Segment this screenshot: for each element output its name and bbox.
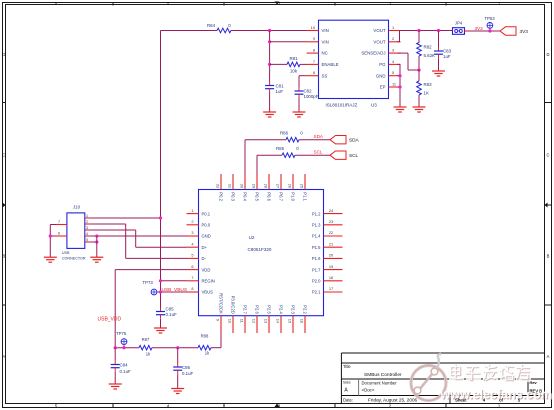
wire SENSE/ADJ to R82 bottom [398,52,409,54]
svg-text:USB_VBUS: USB_VBUS [162,287,188,293]
svg-text:1uF: 1uF [443,54,451,59]
wire R84 left segment [161,30,218,32]
U2 pin 30 P0.4 [244,174,246,190]
svg-text:R82: R82 [424,45,433,50]
node R82 top junction [417,29,420,32]
node C83 top junction [437,29,440,32]
ground J10 pins4-5 [90,256,103,258]
svg-text:Size: Size [343,380,352,385]
U2 pin 29 P0.5 [256,174,258,190]
svg-text:Date:: Date: [343,398,353,403]
capacitor C84 0.1uF [114,348,116,361]
U3 pin 2 VOUT [389,41,401,43]
wire VOUT pin2 join [398,41,400,43]
svg-text:P1.0: P1.0 [291,192,296,201]
capacitor C82 1000pF [298,87,300,91]
wire to U3 pin9 [270,41,307,43]
svg-text:19: 19 [329,264,333,269]
wire C81 to ground [269,93,271,113]
svg-text:17: 17 [329,286,333,291]
svg-text:R88: R88 [201,333,209,338]
capacitor C83 1uF [438,31,440,48]
node EP junction [398,86,401,88]
wire USB_VDD vertical [114,270,116,348]
op-amp U3 ISL80101IRAJZ body [319,20,389,98]
svg-text:SDA: SDA [349,138,360,143]
svg-text:A: A [2,354,5,359]
svg-text:5.62K: 5.62K [424,53,436,58]
svg-text:25: 25 [300,184,305,188]
U2 pin 18 P2.0 [324,280,343,282]
resistor R84 [217,28,231,33]
svg-text:C8051F320: C8051F320 [247,247,271,252]
svg-text:0.1uF: 0.1uF [120,369,132,374]
svg-text:D-: D- [202,256,207,261]
svg-text:TP76: TP76 [116,331,127,336]
node TP53 junction [488,29,491,32]
svg-text:JP4: JP4 [455,21,463,26]
svg-text:J10: J10 [73,205,81,210]
wire R82 top lead [418,31,420,43]
svg-text:6: 6 [191,264,193,269]
svg-text:A: A [547,354,550,359]
U2 pin 14 P2.4 [280,316,282,333]
U2 pin 17 P2.1 [324,291,343,293]
svg-text:0.1uF: 0.1uF [166,312,178,317]
resistor R87 1k [139,345,152,350]
svg-text:12: 12 [252,319,257,323]
svg-text:27: 27 [276,184,281,188]
svg-text:P0.3: P0.3 [231,192,236,201]
svg-text:11: 11 [240,319,245,323]
U2 pin 3 GND [187,235,199,237]
svg-text:Document Number: Document Number [362,381,398,386]
svg-text:REV B: REV B [530,389,543,394]
svg-text:0.1uF: 0.1uF [182,371,194,376]
capacitor C81 1uF [269,82,271,86]
node R81 junction [268,63,271,66]
U2 pin 32 P0.2 [220,174,222,190]
svg-text:15: 15 [288,319,293,323]
watermark logo elecfans [411,354,553,403]
U3 pin 6 SS [307,75,319,77]
net tag SDA [330,136,346,144]
U2 pin 12 P2.6 [256,316,258,333]
svg-text:10k: 10k [290,69,298,74]
U2 pin 21 P1.5 [324,246,343,248]
resistor R81 10k [287,62,300,67]
U2 pin 1 P0.1 [187,213,199,215]
ground C84 [109,383,122,385]
node J10 gnd junction A [95,234,98,237]
wire to R81 [270,63,287,65]
node J10 gnd junction B [95,240,98,243]
svg-text:Title: Title [343,364,351,369]
U2 pin 7 REGIN [187,280,199,282]
svg-text:GND: GND [202,234,211,239]
svg-text:9: 9 [313,36,315,41]
svg-text:C: C [546,153,549,158]
U2 pin 27 P0.7 [280,174,282,190]
ground R83 [413,106,426,108]
ground C81 [263,111,276,113]
svg-text:18: 18 [329,275,333,280]
svg-text:SCL: SCL [314,150,323,155]
U2 pin 5 D- [187,257,199,259]
svg-text:R84: R84 [207,23,216,28]
ground C82 [293,111,306,113]
J10 pin 3 [85,229,90,231]
svg-text:P2.0: P2.0 [312,279,321,284]
svg-text:P1.1: P1.1 [303,192,308,201]
resistor R85 0 [282,153,295,158]
svg-text:P2.5: P2.5 [267,305,272,314]
ground C83 [432,70,445,72]
ground J10 shield [44,256,57,258]
svg-text:SCL: SCL [349,153,359,158]
svg-text:C82: C82 [304,89,313,94]
J10 pin 7 [56,224,67,226]
svg-text:29: 29 [252,184,257,188]
svg-text:TP53: TP53 [484,16,495,21]
wire R87 to node [152,347,198,349]
svg-text:P3.0/C2D: P3.0/C2D [231,296,236,314]
svg-text:3V3: 3V3 [475,26,484,31]
U2 pin 15 P2.3 [292,316,294,333]
wire R84 to U3 VIN [231,30,307,32]
svg-text:8: 8 [191,286,193,291]
svg-text:6: 6 [313,70,315,75]
svg-text:CONNECTOR: CONNECTOR [62,257,86,261]
svg-text:2: 2 [191,219,193,224]
node C84 junction [114,346,117,349]
svg-text:16: 16 [300,319,305,323]
U3 pin 11 EP [389,86,401,88]
wire trunk to REGIN [161,280,187,282]
wire gnd branch down [96,236,98,257]
U2 pin 10 P3.0/C2D [232,316,234,333]
U3 pin 10 VIN [307,30,319,32]
svg-text:P1.3: P1.3 [312,223,321,228]
svg-text:26: 26 [288,184,293,188]
svg-text:28: 28 [264,184,269,188]
U2 pin 2 P0.0 [187,224,199,226]
svg-text:P0.5: P0.5 [255,192,260,201]
svg-text:USB: USB [62,251,70,255]
wire USB_VDD to R87 [115,347,139,349]
svg-text:B: B [547,254,550,259]
U2 pin 26 P1.0 [292,174,294,190]
U2 pin 22 P1.4 [324,235,343,237]
svg-text:C84: C84 [120,363,129,368]
svg-text:PG: PG [379,62,386,67]
ground C86 [171,388,184,390]
test point TP76 [121,339,127,345]
svg-text:P0.4: P0.4 [243,192,248,201]
test point TP53 [487,23,493,29]
svg-text:5: 5 [86,238,88,242]
node C86/R88 junction [176,346,179,349]
ground U3 PG/GND/EP [394,106,407,108]
J10 pin 2 [85,223,90,225]
svg-text:SENSE/ADJ: SENSE/ADJ [361,51,385,56]
svg-text:11: 11 [392,81,396,86]
U2 pin 23 P1.3 [324,224,343,226]
U2 pin 31 P0.3 [232,174,234,190]
svg-text:Sheet: Sheet [455,398,467,403]
svg-text:VBUS: VBUS [202,290,214,295]
svg-text:GND: GND [376,73,386,78]
jumper JP4 [453,28,465,35]
svg-text:1: 1 [191,208,193,213]
U3 pin 4 PG [389,63,401,65]
svg-text:R81: R81 [289,56,298,61]
node VIN junction [268,29,271,32]
wire R83 to ground [418,95,420,107]
svg-text:P1.4: P1.4 [312,234,321,239]
resistor R86 0 [286,137,299,142]
svg-text:USB_VDD: USB_VDD [98,316,122,322]
svg-text:3V3: 3V3 [520,29,529,34]
node R82/R83 junction [417,68,420,71]
svg-text:7: 7 [191,275,193,280]
wire C86 to ground [177,374,179,388]
U3 pin 1 VOUT [389,30,401,32]
svg-text:32: 32 [216,184,221,188]
capacitor C85 0.1uF [160,308,162,312]
svg-text:ENABLE: ENABLE [322,62,339,67]
svg-text:Rev: Rev [530,380,537,385]
wire J10 pin1 VBUS to trunk [89,217,160,219]
svg-text:TP73: TP73 [143,280,154,285]
svg-text:23: 23 [329,219,333,224]
wire J10 pin2 D- to U2 [89,223,125,225]
svg-text:P0.0: P0.0 [202,223,211,228]
svg-text:SS: SS [322,73,328,78]
svg-text:21: 21 [329,241,333,246]
svg-text:8: 8 [313,48,315,53]
connector J10 body [67,213,85,249]
wire P0.4 to R86 [244,140,246,177]
J10 pin 6 [56,235,67,237]
svg-text:1: 1 [86,214,88,218]
svg-text:P2.7: P2.7 [243,305,248,314]
svg-text:D: D [546,52,549,57]
U2 pin 25 P1.1 [304,174,306,190]
wire J10 pin4 GND to U2 GND [89,235,186,237]
title block [340,353,342,404]
svg-text:SDA: SDA [314,134,324,139]
U2 pin 8 VBUS [187,291,199,293]
svg-text:R86: R86 [280,131,289,136]
svg-text:5: 5 [191,253,193,258]
svg-text:5: 5 [392,70,394,75]
svg-text:13: 13 [264,319,269,323]
U2 pin 11 P2.7 [244,316,246,333]
wire J10 pin5 to gnd branch [89,241,97,243]
wire R88 to U2 RST [211,347,221,349]
resistor R83 1K [417,81,422,95]
svg-text:B: B [2,254,5,259]
svg-text:<Doc>: <Doc> [362,388,375,393]
node J10 shield junction [49,234,52,237]
wire J10 pin3 D+ to U2 [89,229,135,231]
wire PG/GND/EP to ground [398,63,401,65]
wire USB_VDD to U2 VDD [115,269,186,271]
svg-text:3: 3 [191,230,193,235]
svg-text:VIN: VIN [322,28,329,33]
node TP76 junction [122,346,125,349]
test point TP73 [151,289,157,295]
wire VBUS to U2 [157,291,186,293]
svg-text:R85: R85 [276,146,285,151]
U2 pin 24 P1.2 [324,213,343,215]
net tag SCL [330,151,346,159]
svg-text:C85: C85 [166,307,175,312]
svg-text:P1.6: P1.6 [312,256,321,261]
svg-text:D: D [2,52,5,57]
wire C82 to ground [298,98,300,112]
svg-text:R87: R87 [142,337,150,342]
svg-text:7: 7 [58,220,60,224]
svg-text:1: 1 [392,25,394,30]
node VBUS junction [159,290,162,293]
svg-text:1K: 1K [424,91,429,96]
resistor R88 1k [198,345,211,350]
svg-text:ISL80101IRAJZ: ISL80101IRAJZ [326,103,358,108]
svg-text:RST/C2CK: RST/C2CK [219,293,224,314]
J10 pin 4 [85,235,90,237]
U2 pin 28 P0.6 [268,174,270,190]
svg-text:4: 4 [86,232,88,236]
wire VBUS trunk vertical [160,31,162,310]
svg-text:R83: R83 [424,82,433,87]
U2 pin 9 RST/C2CK [220,316,222,333]
node pin9 junction [268,40,271,43]
U2 pin 20 P1.6 [324,257,343,259]
U2 pin 13 P2.5 [268,316,270,333]
svg-text:P0.2: P0.2 [219,192,224,201]
U3 pin 8 NC [307,52,319,54]
svg-text:P2.1: P2.1 [312,290,321,295]
wire C83 to ground [438,58,440,71]
svg-text:7: 7 [313,59,315,64]
net tag 3V3 [500,27,516,35]
svg-text:Friday, August 25, 2006: Friday, August 25, 2006 [368,398,418,403]
svg-text:22: 22 [329,230,333,235]
U2 pin 4 D+ [187,246,199,248]
svg-text:2: 2 [392,36,394,41]
svg-text:P2.6: P2.6 [255,305,260,314]
svg-text:P2.2: P2.2 [303,305,308,314]
svg-text:C: C [2,153,5,158]
svg-text:C86: C86 [182,365,191,370]
resistor R82 5.62K [417,43,422,57]
J10 pin 1 [85,217,90,219]
wire R85 to SCL tag [295,154,330,156]
svg-text:P1.5: P1.5 [312,245,321,250]
U3 pin 9 VIN [307,41,319,43]
svg-text:2: 2 [86,220,88,224]
svg-text:U3: U3 [371,103,377,108]
wire C85 to ground [160,319,162,328]
microcontroller U2 C8051F320 body [199,190,324,316]
node REGIN junction [159,279,162,282]
svg-text:P2.4: P2.4 [279,305,284,314]
wire U3 SS to C82 [299,75,307,77]
wire R82 bottom lead [418,56,420,70]
U2 pin 19 P1.7 [324,269,343,271]
U3 pin 7 ENABLE [307,63,319,65]
svg-text:C83: C83 [443,49,452,54]
svg-text:NC: NC [322,51,328,56]
svg-text:VIN: VIN [322,39,329,44]
U2 pin 16 P2.2 [304,316,306,333]
svg-text:P1.2: P1.2 [312,211,321,216]
svg-text:EP: EP [380,85,386,90]
svg-text:31: 31 [228,184,233,188]
J10 pin 5 [85,241,90,243]
node GND pin5 junction [398,75,401,77]
svg-text:D+: D+ [202,245,208,250]
U3 pin 5 GND [389,75,401,77]
svg-text:3: 3 [392,48,394,53]
wire VIN branch vertical [269,31,271,82]
node VBUS trunk junction [159,216,162,219]
svg-text:3: 3 [86,226,88,230]
svg-text:P0.1: P0.1 [202,211,211,216]
svg-text:1uF: 1uF [276,89,284,94]
svg-text:REGIN: REGIN [202,279,215,284]
svg-text:1000pF: 1000pF [304,94,319,99]
wire VOUT to JP4 [401,30,453,32]
svg-text:VOUT: VOUT [373,39,385,44]
ground C85 [154,327,167,329]
wire R86 to SDA tag [299,139,330,141]
U3 pin 3 SENSE/ADJ [389,52,401,54]
svg-text:P0.6: P0.6 [267,192,272,201]
svg-text:P2.3: P2.3 [291,305,296,314]
svg-text:9: 9 [216,319,221,321]
wire P0.5 to R85 [256,155,258,177]
wire J10 shield to ground [50,224,56,226]
U2 pin 6 VDD [187,269,199,271]
svg-text:VOUT: VOUT [373,28,385,33]
svg-text:SMBus Controller: SMBus Controller [364,372,402,378]
wire JP4 to 3V3 tag [465,30,501,32]
wire C84 to ground [114,372,116,384]
capacitor C86 0.1uF [177,348,179,363]
svg-text:VDD: VDD [202,267,211,272]
svg-text:C81: C81 [276,84,285,89]
svg-text:6: 6 [58,231,60,235]
svg-text:U2: U2 [249,235,255,240]
svg-text:P0.7: P0.7 [279,192,284,201]
svg-text:P1.7: P1.7 [312,267,321,272]
